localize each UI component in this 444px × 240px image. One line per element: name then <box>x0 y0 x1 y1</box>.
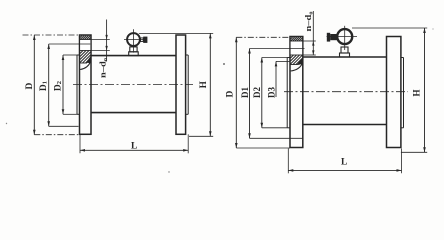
svg-text:D1: D1 <box>240 87 250 98</box>
svg-text:L: L <box>341 158 347 168</box>
svg-text:H: H <box>412 89 422 96</box>
svg-text:n–d₀: n–d₀ <box>97 57 107 78</box>
svg-text:D3: D3 <box>267 87 277 98</box>
svg-text:D2: D2 <box>252 87 262 98</box>
svg-text:H: H <box>198 81 208 88</box>
svg-text:L: L <box>131 142 137 152</box>
svg-text:D: D <box>225 90 235 97</box>
svg-text:D: D <box>25 82 35 89</box>
svg-text:n–d₀: n–d₀ <box>303 11 313 32</box>
